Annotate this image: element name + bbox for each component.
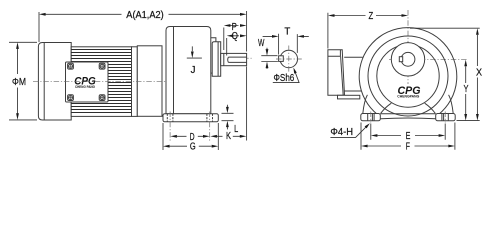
dimension G (163, 123, 218, 153)
dimension F (361, 123, 455, 153)
output shaft (221, 53, 247, 65)
svg-text:X: X (476, 67, 482, 78)
hub lower shelf (211, 72, 212, 74)
base flange bar (163, 114, 218, 122)
hub upper steps (211, 38, 220, 50)
shaft keyway lines (228, 57, 247, 62)
hub inner line (217, 42, 219, 77)
flange bolt hole left (167, 114, 173, 122)
terminal box (328, 50, 345, 96)
motor front housing (137, 46, 162, 117)
flange bolt hole right (207, 114, 213, 122)
shaft base step (223, 53, 225, 65)
shaft section circle (280, 50, 298, 68)
svg-text:Y: Y (464, 84, 469, 95)
output shaft centerline (202, 57, 252, 59)
dimension K (222, 105, 234, 142)
svg-text:Φ4-H: Φ4-H (330, 127, 353, 138)
svg-text:ΦM: ΦM (12, 77, 26, 88)
label PhiSh6 with leader (273, 68, 299, 85)
nameplate (66, 62, 109, 102)
svg-text:L: L (234, 124, 238, 135)
dimension X (410, 28, 482, 120)
svg-text:W: W (258, 38, 265, 49)
svg-text:T: T (284, 27, 290, 38)
nameplate screw pads (68, 63, 105, 100)
base web (380, 114, 435, 119)
cooling fins (71, 50, 131, 113)
svg-text:E: E (406, 131, 411, 142)
outer case circle (359, 28, 457, 115)
front keyway key (399, 57, 402, 62)
label Phi4-H with leader (330, 123, 369, 138)
left foot (361, 114, 381, 121)
svg-text:Z: Z (368, 11, 373, 22)
motor axis centerline (33, 81, 180, 83)
svg-text:F: F (406, 141, 410, 152)
terminal box lid seam (328, 50, 341, 57)
motor flange ring (132, 47, 138, 117)
dimension PhiM (9, 42, 37, 120)
dimension P (224, 22, 247, 50)
dimension L (210, 124, 246, 138)
terminal box face line (341, 56, 344, 95)
flange hole centerline left (169, 112, 171, 142)
box to case neck (344, 57, 363, 91)
dimension Q (227, 31, 247, 56)
right foot hole (442, 114, 448, 121)
svg-text:Q: Q (232, 31, 238, 42)
svg-text:G: G (190, 142, 196, 153)
left foot hole (368, 114, 374, 121)
fan cover seam (43, 43, 45, 121)
svg-text:K: K (226, 131, 231, 142)
dimension D (170, 132, 209, 143)
shaft circle (401, 52, 415, 66)
terminal box bottom ledge (338, 95, 360, 99)
motor fin body (71, 47, 131, 117)
svg-text:J: J (191, 65, 196, 76)
hub block (212, 42, 221, 77)
left gussets (363, 95, 392, 114)
dimension E (371, 124, 445, 142)
detail centerlines (276, 46, 302, 74)
vertical centerline (407, 10, 409, 84)
gear head (166, 27, 211, 114)
hub boss circle (391, 43, 424, 76)
gear head inner line (173, 27, 175, 114)
inner cover circle (377, 45, 439, 107)
svg-text:CHENG PANG: CHENG PANG (75, 85, 95, 89)
right gussets (425, 95, 454, 114)
right foot (436, 114, 456, 121)
dimension T (263, 27, 309, 55)
dimension A(A1,A2) (39, 10, 247, 141)
dimension Y (464, 60, 469, 121)
shaft horizontal centerline (389, 58, 468, 60)
flange hole centerline right (209, 112, 211, 142)
dimension Z (328, 11, 408, 48)
svg-text:A(A1,A2): A(A1,A2) (126, 10, 163, 21)
svg-text:CHENGPANG: CHENGPANG (397, 94, 419, 98)
motor fan cover (38, 43, 71, 121)
svg-text:ΦSh6: ΦSh6 (274, 73, 295, 84)
key in keyway (279, 56, 284, 62)
dimension J (187, 46, 202, 76)
middle rim circle (368, 36, 448, 116)
dimension W (258, 38, 278, 69)
